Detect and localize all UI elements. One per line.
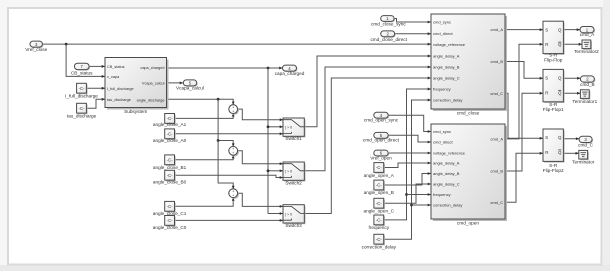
svg-text:cmd_C: cmd_C xyxy=(490,200,503,205)
svg-text:{ > 0: { > 0 xyxy=(285,212,292,216)
svg-text:Q: Q xyxy=(558,76,562,81)
svg-text:-C-: -C- xyxy=(79,86,85,91)
svg-text:cmd_C: cmd_C xyxy=(578,142,593,147)
svg-text:cmd_A: cmd_A xyxy=(491,27,504,32)
svg-text:-C-: -C- xyxy=(167,116,173,121)
svg-text:cmd_B: cmd_B xyxy=(491,169,504,174)
svg-text:v_capa: v_capa xyxy=(107,75,120,79)
svg-text:Terminator1: Terminator1 xyxy=(572,99,597,104)
svg-text:Switch1: Switch1 xyxy=(285,136,302,141)
svg-text:-C-: -C- xyxy=(167,173,173,178)
svg-text:-C-: -C- xyxy=(376,183,382,188)
svg-text:angle_close_C0: angle_close_C0 xyxy=(153,225,187,230)
svg-text:angle_close_B1: angle_close_B1 xyxy=(153,165,187,170)
svg-text:angle_close_A1: angle_close_A1 xyxy=(153,122,187,127)
svg-text:cmd_C: cmd_C xyxy=(490,91,503,96)
svg-text:-C-: -C- xyxy=(376,218,382,223)
svg-text:S-R: S-R xyxy=(549,102,558,107)
svg-text:Q: Q xyxy=(558,27,562,32)
svg-text:Q: Q xyxy=(558,42,562,47)
svg-text:angle_delay_A: angle_delay_A xyxy=(433,161,460,166)
svg-text:angle_open_C: angle_open_C xyxy=(364,208,395,213)
svg-text:Flip-Flop: Flip-Flop xyxy=(544,58,563,63)
svg-text:angle_delay_C: angle_delay_C xyxy=(433,182,460,187)
svg-text:angle_close_B0: angle_close_B0 xyxy=(153,180,187,185)
svg-text:+: + xyxy=(232,110,234,114)
svg-text:-C-: -C- xyxy=(79,106,85,111)
svg-text:angle_delay_B: angle_delay_B xyxy=(433,171,460,176)
svg-text:-C-: -C- xyxy=(167,131,173,136)
svg-text:frequency: frequency xyxy=(433,192,451,197)
svg-text:cmd_sync: cmd_sync xyxy=(433,20,451,25)
svg-text:Vref_open: Vref_open xyxy=(370,155,392,160)
svg-text:cmd_B: cmd_B xyxy=(491,59,504,64)
svg-text:angle_close_A0: angle_close_A0 xyxy=(153,138,187,143)
svg-text:+: + xyxy=(232,194,234,198)
svg-text:cmd_close: cmd_close xyxy=(457,111,480,116)
svg-text:R: R xyxy=(545,90,548,95)
svg-text:Terminator2: Terminator2 xyxy=(574,49,599,54)
svg-text:correction_delay: correction_delay xyxy=(433,98,462,103)
svg-text:-C-: -C- xyxy=(167,204,173,209)
svg-text:cmd_direct: cmd_direct xyxy=(433,140,453,145)
svg-text:S: S xyxy=(545,76,548,81)
svg-text:capa_charged: capa_charged xyxy=(140,66,164,70)
svg-text:cmd_sync: cmd_sync xyxy=(433,129,451,134)
svg-text:-C-: -C- xyxy=(167,157,173,162)
svg-text:tau_discharge: tau_discharge xyxy=(67,113,97,118)
svg-text:Vcapa_calcul: Vcapa_calcul xyxy=(176,86,204,91)
svg-text:frequency: frequency xyxy=(433,87,451,92)
svg-text:I_full_discharge: I_full_discharge xyxy=(107,87,134,91)
svg-text:S-R: S-R xyxy=(549,163,558,168)
svg-text:Subsystem: Subsystem xyxy=(124,109,147,114)
svg-text:R: R xyxy=(545,42,548,47)
svg-text:angle_open_A: angle_open_A xyxy=(364,173,395,178)
svg-text:-C-: -C- xyxy=(376,165,382,170)
svg-text:-C-: -C- xyxy=(376,237,382,242)
svg-text:cmd_direct: cmd_direct xyxy=(433,31,453,36)
svg-text:I_full_discharge: I_full_discharge xyxy=(65,93,98,98)
svg-text:Switch2: Switch2 xyxy=(285,180,302,185)
svg-text:Terminator: Terminator xyxy=(572,159,595,164)
svg-text:voltage_reference: voltage_reference xyxy=(433,42,466,47)
svg-text:CB_status: CB_status xyxy=(107,65,125,69)
svg-text:frequency: frequency xyxy=(369,225,390,230)
svg-text:cmd_open_direct: cmd_open_direct xyxy=(363,138,400,143)
svg-text:cmd_A: cmd_A xyxy=(580,32,595,37)
svg-text:correction_delay: correction_delay xyxy=(362,244,397,249)
svg-text:cmd_B: cmd_B xyxy=(580,82,595,87)
svg-text:cmd_close_direct: cmd_close_direct xyxy=(370,37,407,42)
svg-text:+: + xyxy=(232,151,234,155)
svg-text:angle_delay_B: angle_delay_B xyxy=(433,65,460,70)
svg-text:Q: Q xyxy=(558,135,562,140)
svg-text:CB_status: CB_status xyxy=(71,71,93,76)
svg-text:{ > 0: { > 0 xyxy=(285,170,292,174)
svg-text:Vcapa_calcul: Vcapa_calcul xyxy=(142,82,165,86)
svg-text:angle_open_B: angle_open_B xyxy=(364,190,394,195)
svg-text:-C-: -C- xyxy=(167,218,173,223)
svg-text:-C-: -C- xyxy=(376,201,382,206)
svg-text:cmd_A: cmd_A xyxy=(491,137,504,142)
svg-text:angle_delay_A: angle_delay_A xyxy=(433,54,460,59)
svg-text:S: S xyxy=(545,27,548,32)
svg-text:R: R xyxy=(545,150,548,155)
svg-text:Vref_close: Vref_close xyxy=(25,47,47,52)
svg-text:correction_delay: correction_delay xyxy=(433,203,462,208)
svg-text:capa_charged: capa_charged xyxy=(275,71,305,76)
svg-text:angle_delay_C: angle_delay_C xyxy=(433,76,460,81)
svg-text:S: S xyxy=(545,135,548,140)
svg-text:Flip-Flop1: Flip-Flop1 xyxy=(543,107,564,112)
svg-text:{ > 0: { > 0 xyxy=(285,126,292,130)
svg-text:cmd_open_sync: cmd_open_sync xyxy=(364,118,399,123)
svg-text:tau_discharge: tau_discharge xyxy=(107,98,131,102)
svg-text:cmd_close_sync: cmd_close_sync xyxy=(371,21,406,26)
svg-text:cmd_open: cmd_open xyxy=(457,221,479,226)
svg-text:Flip-Flop2: Flip-Flop2 xyxy=(543,168,564,173)
svg-text:Switch3: Switch3 xyxy=(285,223,302,228)
svg-text:angle_discharge: angle_discharge xyxy=(137,98,165,102)
svg-text:Q: Q xyxy=(558,90,562,95)
svg-text:Q: Q xyxy=(558,150,562,155)
svg-text:voltage_reference: voltage_reference xyxy=(433,151,466,156)
